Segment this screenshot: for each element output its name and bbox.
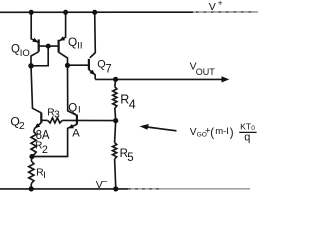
wire Q7 collector from V+ [90,12,96,58]
node R1 / V- rail [29,186,34,191]
arrow Q2 emitter (NPN) [34,123,40,128]
wire Q11 collector [59,52,68,65]
svg-text:+: + [218,0,223,8]
arrow Q10 emitter (PNP) [32,38,38,43]
svg-text:4: 4 [129,97,136,111]
wire Q2 emitter [34,123,42,132]
svg-text:): ) [230,128,234,140]
svg-text:8A: 8A [36,127,50,142]
fraction bar [239,131,256,133]
node top rail / Q7 [92,10,97,15]
svg-text:II: II [77,41,82,52]
node VOUT / R4 [113,77,118,82]
svg-text:I: I [43,170,46,181]
wire base node: R3 right to Q1 base to R4/R5 tap [62,119,115,121]
svg-text:(: ( [210,128,214,140]
svg-text:V: V [209,1,216,13]
wire Q2 collector [31,66,41,113]
svg-text:–: – [102,176,107,186]
arrow annotation pointer [140,124,149,130]
node top rail / Q11 [63,10,68,15]
svg-text:7: 7 [105,64,111,76]
resistor R1 [29,161,34,184]
resistor R5 [113,143,117,159]
transistor Q7 [88,59,90,70]
resistor R3 [48,118,63,123]
wire R2 to R1 node [32,155,34,157]
wire Q10 collector [31,52,39,66]
svg-text:Q: Q [11,43,20,55]
wire R1 bottom [30,184,32,189]
wire Q10 emitter from V+ [31,12,38,42]
svg-text:KT: KT [240,122,252,132]
wire R4 bottom [114,108,117,121]
svg-text:IO: IO [20,48,30,59]
arrow Q11 emitter (PNP) [59,36,65,41]
transistor Q2 [40,113,42,123]
transistor Q10 [38,39,40,51]
svg-text:2: 2 [19,120,25,132]
resistor R4 [113,87,117,108]
node R2/R1/Q1 emitter [29,154,34,159]
V- rail [0,188,128,190]
wire diode loop base-collector [31,46,48,66]
wire VOUT [95,78,222,80]
svg-text:3: 3 [54,110,60,121]
svg-text:2: 2 [42,144,48,156]
svg-text:Q: Q [68,35,77,49]
wire Q11 emitter from V+ [59,12,65,40]
wire Q7 emitter to output node [89,70,95,80]
node R5 / V- rail [113,186,118,191]
wire Q7 base [68,64,89,66]
svg-text:I: I [78,105,81,116]
wire Q1 collector from Q11 [68,65,77,115]
arrow Q7 emitter (NPN) [90,70,96,75]
node R4/R5 tap [113,118,118,123]
svg-text:OUT: OUT [196,67,216,77]
resistor R2 [31,132,36,156]
arrow Q1 emitter (NPN) [68,124,74,128]
transistor Q11 [57,40,59,53]
node Q10 base loop [46,44,51,49]
svg-text:5: 5 [127,152,133,164]
node Q11 collector / Q7 base [65,63,70,68]
wire R4 top [114,79,117,87]
svg-text:A: A [72,128,80,140]
wire Q10/Q11 base [39,45,59,47]
wire Q1 emitter [32,124,77,156]
svg-text:q: q [244,131,250,143]
node top rail / Q10 [29,10,34,15]
V+ rail [0,11,193,13]
svg-text:0: 0 [251,125,255,132]
wire R5 top [115,121,116,143]
arrow VOUT [222,76,230,82]
transistor Q1 [76,115,78,125]
wire R1 top [30,157,33,162]
annotation arrow [147,127,177,131]
wire Q2 base to R3 [41,119,47,121]
svg-text:Q: Q [68,103,77,115]
svg-text:m-I: m-I [215,126,229,137]
wire R5 bottom [115,159,116,189]
node Q10 collector / Q2 collector [28,63,33,68]
